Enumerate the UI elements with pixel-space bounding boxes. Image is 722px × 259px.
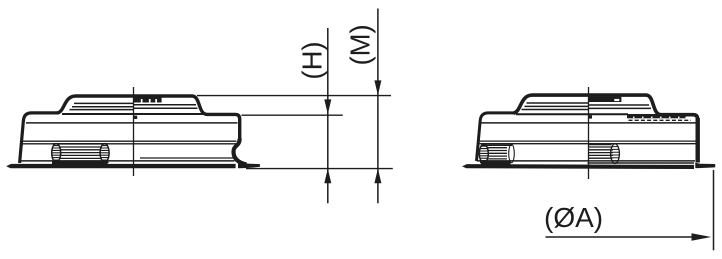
shadow bar under fitting cylinder [52,162,108,165]
svg-text:(H): (H) [296,41,327,79]
arrow H up [324,169,331,184]
wire: left wall + shoulder [477,113,515,161]
body line 4 [478,143,697,145]
svg-text:(ØA): (ØA) [544,202,603,233]
arrow ØA right [692,233,712,240]
extension line top (M level) [197,95,391,97]
arrow H down [324,99,331,114]
dimension line M [377,9,379,204]
node tick near centerline [589,115,592,118]
thin lines under top right half [589,104,650,106]
right ellipse hatched [100,144,109,163]
body line 2 [26,122,238,124]
dashed thread line lower step [629,119,692,121]
fitting cylinder left view [51,144,110,163]
centerline left view [133,87,135,176]
right wall fattening overlay [696,118,700,163]
body line 7 [20,160,234,162]
extension line H level [242,114,343,116]
node tick near centerline [134,116,137,119]
thread dashes top [134,97,162,102]
right wall foot [695,163,715,169]
wire: right lip curl [234,139,247,165]
base flange right view [462,97,715,169]
thin lines under top right half [134,104,197,106]
base flange left view [6,97,260,168]
cap ellipse [611,144,620,164]
body line 3 [21,140,237,142]
wire: dome top profile [57,96,240,140]
lip foot right [238,163,260,168]
wire: dome top profile + right wall [514,95,698,162]
left ellipse hatched [52,144,61,163]
svg-text:(M): (M) [344,24,375,65]
right cap arc [509,144,515,162]
fitting cylinder right view right half [588,144,695,164]
left ellipse hatched [479,144,488,162]
body line 2 [481,122,696,124]
thread band lower step [627,114,686,118]
thin lines under dome left half [74,102,134,104]
thin lines under dome left half [527,102,589,104]
thread band top [589,97,622,102]
extension line right [713,170,715,250]
arrow M down [374,80,381,95]
dimension line H [327,28,329,203]
extension line bottom [246,168,393,170]
body line 7 [477,160,695,162]
body line 3 [478,140,697,142]
section line under dome to step [62,113,207,115]
fitting cylinder right view left half [479,144,515,162]
arrow M up [374,169,381,184]
body line 6 [140,157,235,159]
shadow bar under fitting cylinder [481,162,511,165]
under-dome line right view [516,113,628,115]
wire: left wall + shoulder [20,113,58,163]
dimension line ØA [546,236,693,238]
body line 4 [21,143,237,145]
centerline right view [588,87,590,179]
